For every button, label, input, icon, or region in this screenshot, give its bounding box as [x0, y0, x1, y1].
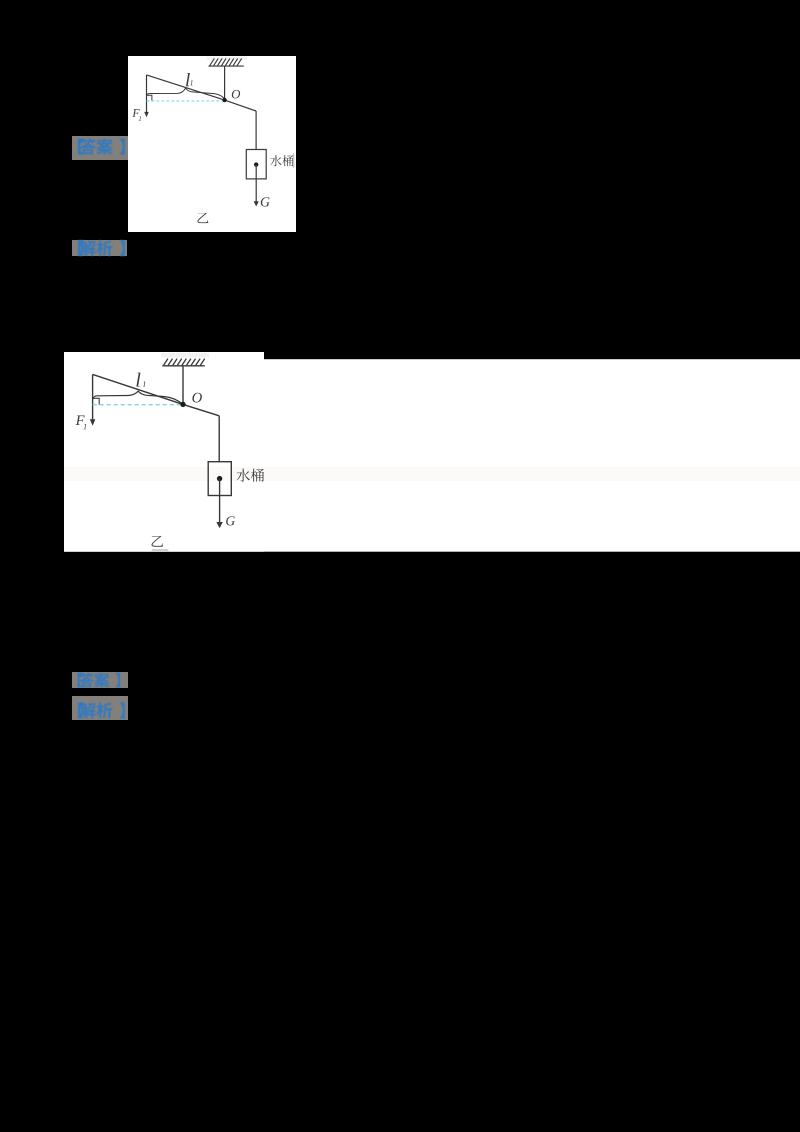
label O: [192, 393, 201, 403]
label F1 small: [132, 109, 139, 117]
G arrow: [219, 479, 221, 523]
right cord: [218, 416, 220, 462]
label l1: [136, 373, 140, 387]
label O small: [232, 90, 240, 99]
label G: [226, 516, 235, 525]
label 水桶 small: [270, 155, 281, 166]
faint halo above hatching: [161, 353, 209, 358]
dashed lever-arm line small: [147, 100, 225, 102]
label 乙 small: [197, 213, 208, 223]
ceiling line: [208, 65, 243, 67]
brace l1: [93, 391, 182, 403]
right-angle mark small: [147, 95, 152, 101]
right cord small: [255, 111, 257, 150]
bucket box small: [246, 150, 266, 179]
ceiling line: [162, 365, 204, 367]
lever beam: [93, 374, 220, 415]
white panel 2 background: [64, 352, 264, 552]
label l1 small: [186, 73, 190, 86]
ceiling hatching: [210, 59, 242, 66]
label 【答案】 1: [72, 136, 128, 160]
right-angle mark: [93, 398, 99, 404]
panel 1: small diagram image: [128, 56, 296, 232]
bucket box: [208, 462, 231, 496]
left cord: [92, 374, 94, 420]
label G small: [261, 197, 270, 206]
F1 arrowhead small: [144, 112, 149, 117]
left cord small: [146, 75, 148, 113]
faint halo above hatching: [207, 57, 247, 60]
support rod small: [224, 66, 226, 100]
label 【答案】 2: [72, 672, 128, 688]
pivot O dot small: [222, 98, 226, 102]
G arrow small: [255, 165, 257, 202]
label F1: [76, 416, 85, 425]
bucket dot: [217, 476, 222, 481]
brace small: [147, 88, 225, 99]
caret bar: [293, 153, 294, 168]
dashed lever-arm line: [93, 404, 183, 406]
white panel 1 background: [128, 56, 296, 232]
label 【解析】 2: [72, 696, 128, 720]
lever beam small: [147, 75, 257, 111]
F1 arrowhead: [90, 419, 96, 426]
underline under 乙: [152, 549, 169, 551]
bucket dot small: [254, 162, 258, 166]
panel 2: large diagram image: [64, 352, 800, 552]
label 水桶: [236, 469, 249, 482]
label 【解析】 1: [72, 240, 127, 256]
support rod: [182, 366, 184, 405]
pivot O dot: [180, 402, 185, 407]
label 乙: [152, 536, 164, 547]
ceiling hatching: [164, 359, 205, 365]
